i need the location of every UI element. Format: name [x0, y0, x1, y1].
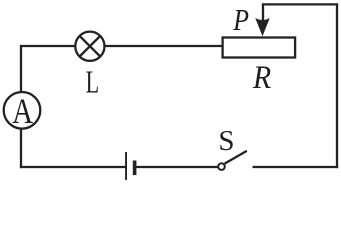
battery cell (short thick negative plate) [133, 161, 137, 176]
slider arrowhead P [255, 18, 270, 36]
wire: top horizontal segment (corner to lamp) [21, 45, 76, 47]
label P (slider, italic) [232, 4, 249, 38]
label R (rheostat, italic) [252, 59, 271, 96]
wire: bottom middle segment (switch pivot to battery) [136, 166, 219, 168]
wire: bottom-right horizontal (corner to switch) [253, 166, 339, 168]
svg-text:S: S [218, 125, 234, 157]
ammeter A (circle) [4, 92, 41, 129]
rheostat R body [223, 38, 296, 58]
wire: lamp to rheostat left terminal [104, 45, 222, 47]
wire: left vertical lower segment (ammeter to bottom-left corner) [20, 128, 22, 169]
label A (ammeter letter) [12, 93, 34, 132]
wire: slider stem vertical [262, 4, 264, 26]
wire: left vertical upper segment (top-left corner to ammeter) [20, 45, 22, 93]
wire: top-right horizontal (slider to right side) [262, 3, 338, 5]
svg-text:A: A [12, 93, 34, 132]
svg-text:P: P [232, 4, 249, 38]
wire: bottom-left segment (battery to bottom-left corner) [20, 166, 126, 168]
svg-text:L: L [86, 65, 99, 100]
svg-text:R: R [252, 59, 271, 96]
label L (lamp) [86, 65, 99, 100]
lamp L1 (circle with cross) [75, 32, 104, 61]
battery cell (long positive plate) [125, 152, 127, 180]
switch S (pivot circle and lever) [218, 151, 247, 170]
wire: right vertical [336, 4, 338, 168]
